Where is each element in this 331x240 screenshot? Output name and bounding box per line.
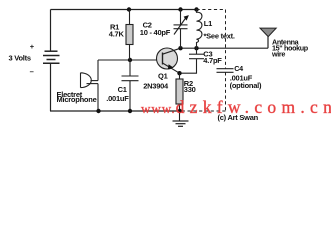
svg-text:*See text.: *See text. — [204, 31, 235, 40]
dashed shield box right / C4 link upper — [225, 10, 227, 69]
svg-text:+: + — [30, 42, 35, 51]
svg-text:C4: C4 — [234, 64, 243, 73]
svg-text:.001uF: .001uF — [106, 94, 129, 103]
svg-text:10 - 40pF: 10 - 40pF — [140, 28, 171, 37]
svg-text:3 Volts: 3 Volts — [9, 54, 31, 63]
electret microphone MIC body — [81, 73, 99, 88]
svg-text:Q1: Q1 — [158, 71, 168, 80]
node collector junction — [178, 46, 182, 50]
dashed wire C4 to ground junction — [180, 110, 226, 112]
svg-text:www.dzkfw.com.cn: www.dzkfw.com.cn — [141, 97, 331, 117]
microphone lower terminal stub — [87, 83, 99, 85]
wire battery negative lead — [50, 63, 52, 111]
svg-text:Microphone: Microphone — [57, 95, 97, 104]
wire mic ground down — [97, 84, 99, 111]
svg-text:4.7K: 4.7K — [109, 29, 125, 38]
wire emitter to R2 — [179, 73, 181, 79]
dashed C4 lower lead — [225, 72, 227, 111]
transistor Q1 base bar — [162, 53, 164, 65]
node R1/C1/base junction — [128, 58, 132, 62]
wire R2 bottom lead — [179, 104, 181, 121]
wire R1 top lead — [129, 10, 131, 25]
battery B1 3 Volts — [43, 51, 60, 63]
capacitor C1 — [122, 60, 139, 111]
transistor Q1 body — [157, 48, 178, 69]
node emitter junction — [177, 71, 181, 75]
transistor Q1 emitter lead with arrow — [163, 63, 180, 73]
inductor L1 coil — [197, 10, 202, 49]
node L1 top junction — [194, 7, 198, 11]
svg-text:L1: L1 — [204, 19, 212, 28]
wire top rail — [51, 9, 197, 11]
node C1 bottom junction — [128, 109, 132, 113]
microphone upper terminal stub — [91, 80, 99, 82]
svg-text:(optional): (optional) — [230, 81, 262, 90]
resistor R1 — [126, 25, 133, 45]
svg-text:C1: C1 — [118, 85, 127, 94]
wire mic signal up — [97, 60, 99, 81]
resistor R2 — [176, 79, 183, 104]
dashed shield box top — [197, 9, 226, 11]
ground symbol — [173, 121, 189, 126]
wire bottom ground rail — [50, 110, 180, 112]
svg-text:–: – — [30, 67, 34, 76]
node mic ground junction — [96, 109, 100, 113]
node R1 top junction — [127, 7, 131, 11]
wire base wire — [98, 59, 163, 61]
wire battery positive lead — [50, 10, 52, 52]
capacitor C4 (optional, dashed leads) — [217, 69, 234, 73]
node C2 top junction — [178, 7, 182, 11]
svg-text:4.7pF: 4.7pF — [203, 56, 222, 65]
wire R1 bottom lead — [129, 45, 131, 61]
C2 arrow — [174, 18, 186, 35]
capacitor C3 — [180, 48, 205, 73]
variable capacitor C2 — [174, 10, 188, 49]
svg-text:2N3904: 2N3904 — [143, 81, 169, 90]
wire antenna lead — [267, 36, 269, 48]
transistor Q1 collector lead — [163, 48, 181, 54]
node R2 ground junction — [178, 109, 182, 113]
antenna symbol — [260, 28, 276, 36]
node L1/C3 junction — [194, 46, 198, 50]
svg-text:330: 330 — [184, 85, 196, 94]
wire collector/antenna wire — [181, 47, 269, 49]
svg-text:wire: wire — [271, 49, 285, 58]
